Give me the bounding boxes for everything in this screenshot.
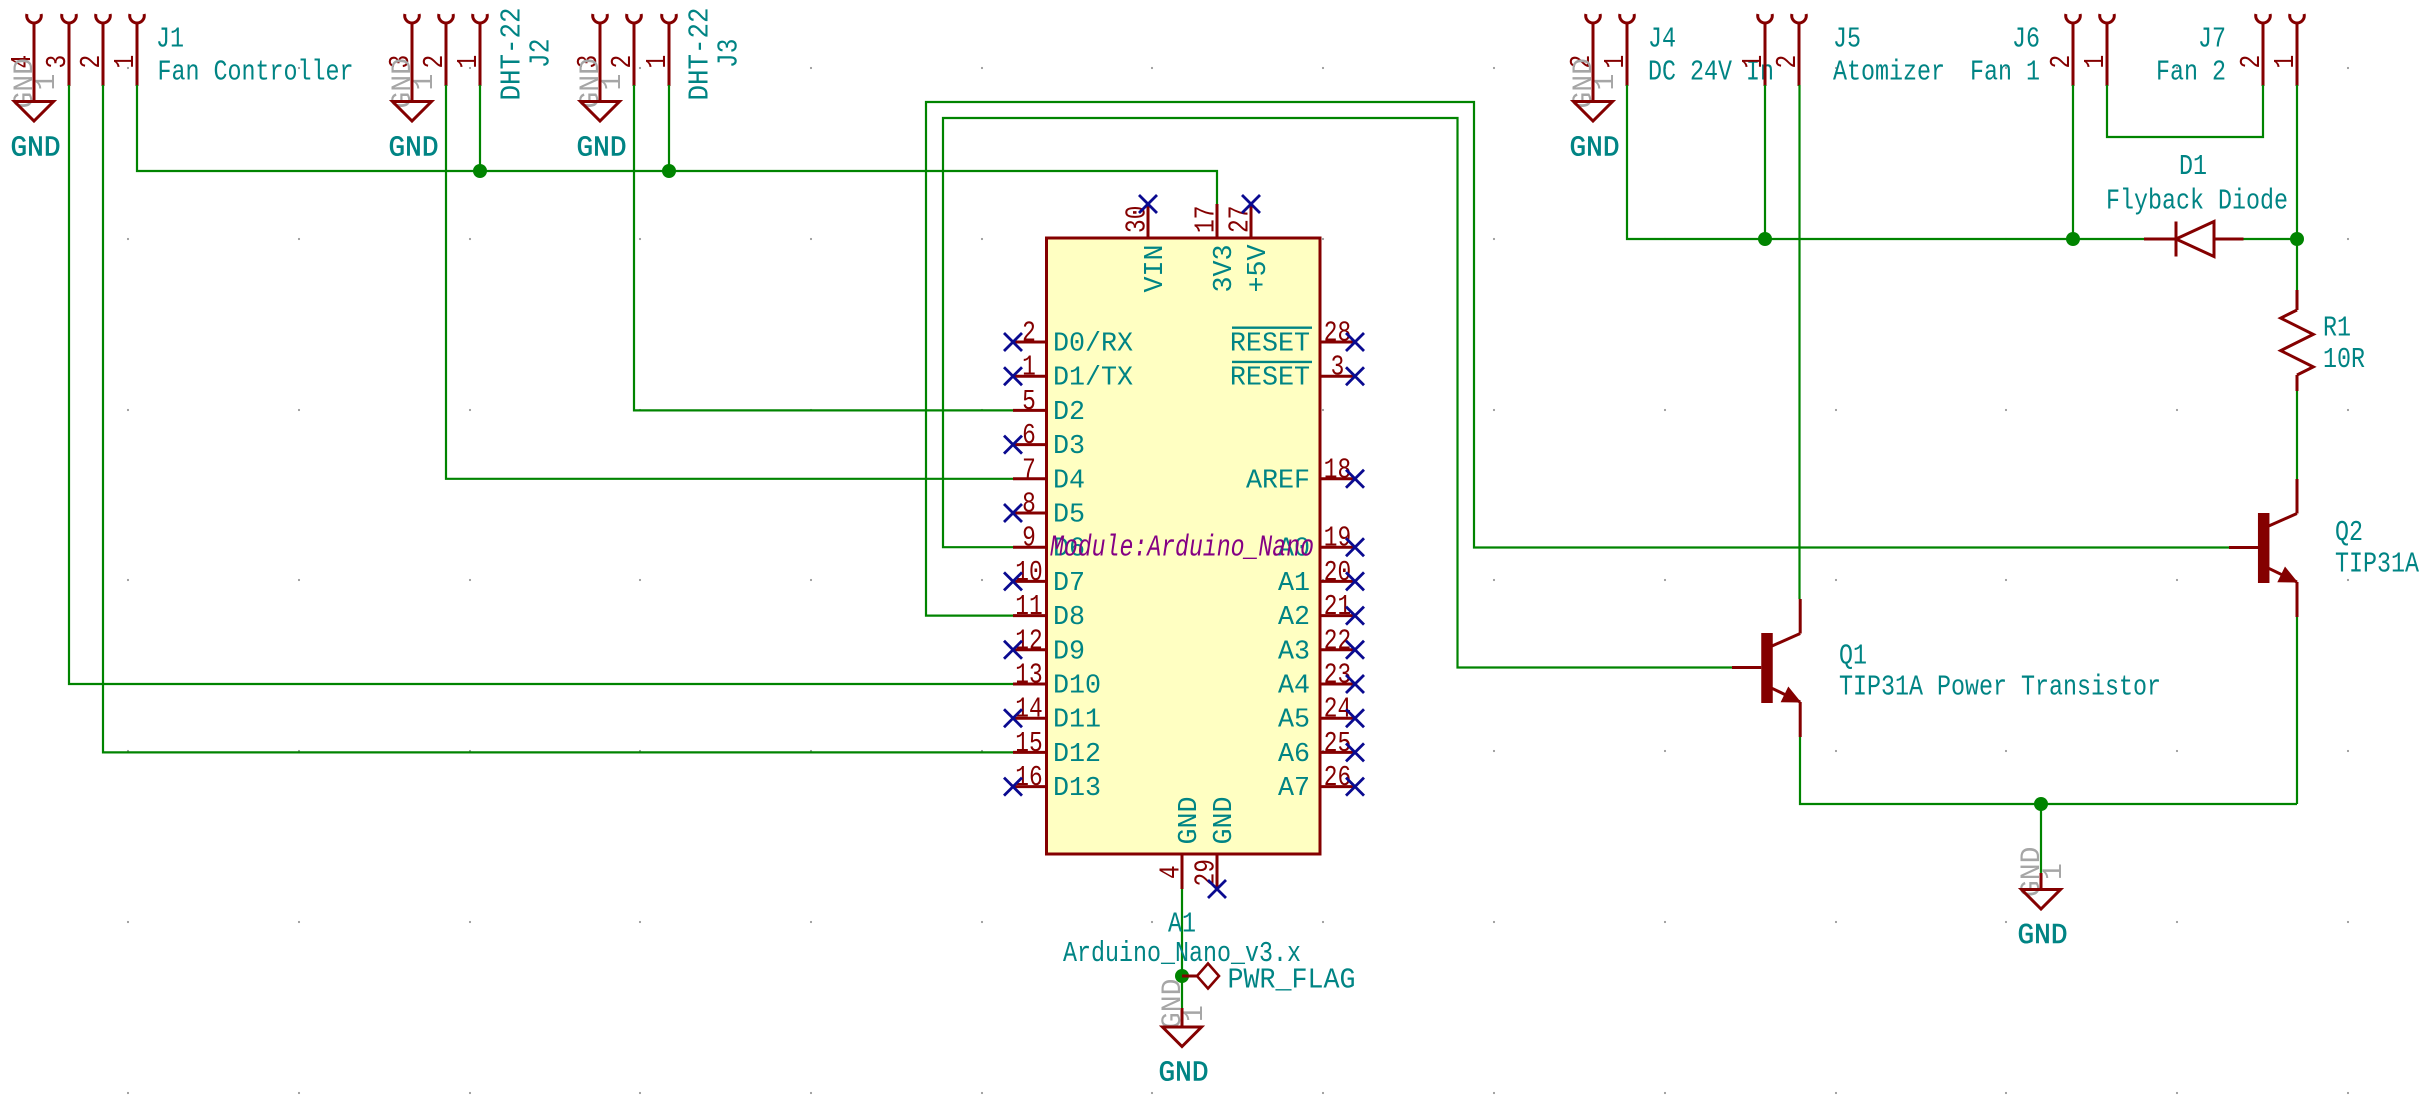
svg-text:17: 17 xyxy=(1190,206,1223,233)
svg-text:5: 5 xyxy=(1022,385,1036,418)
svg-text:9: 9 xyxy=(1022,522,1036,555)
svg-text:D3: D3 xyxy=(1053,432,1085,462)
svg-text:Atomizer: Atomizer xyxy=(1833,56,1945,89)
connector J7 pin 2 xyxy=(2256,14,2271,23)
no-connect X at pin 30 xyxy=(1139,195,1157,213)
svg-text:D5: D5 xyxy=(1053,501,1085,531)
diode D1 xyxy=(2144,238,2176,241)
svg-text:D10: D10 xyxy=(1053,672,1101,702)
svg-text:GND: GND xyxy=(1175,796,1205,844)
svg-text:10R: 10R xyxy=(2323,343,2365,376)
svg-text:A1: A1 xyxy=(1278,569,1310,599)
svg-text:D1/TX: D1/TX xyxy=(1053,364,1133,394)
junction at J2 pin1 on 3V3 net xyxy=(473,164,487,178)
pin 17 3V3 (top) xyxy=(1216,204,1219,238)
pin 26 A7 (right) xyxy=(1320,785,1354,788)
pin 19 A0 (right) xyxy=(1320,546,1354,549)
pin 15 D12 (left) xyxy=(1013,751,1046,754)
svg-text:3: 3 xyxy=(1331,351,1345,384)
junction J5.1 on +24V rail xyxy=(1758,232,1772,246)
pin 6 D3 (left) xyxy=(1013,443,1046,446)
connector J1 pin 1 xyxy=(130,14,145,23)
svg-text:Q1: Q1 xyxy=(1839,640,1867,673)
wire J6.1 to J7.2 xyxy=(2107,85,2263,137)
no-connect X at pin 29 xyxy=(1208,880,1226,898)
ground symbol GND (below Q1/Q2) xyxy=(2040,873,2043,890)
svg-text:Fan 1: Fan 1 xyxy=(1970,56,2040,89)
svg-text:1: 1 xyxy=(1591,74,1622,91)
pin 16 D13 (left) xyxy=(1013,785,1046,788)
svg-text:D0/RX: D0/RX xyxy=(1053,330,1133,360)
svg-text:GND: GND xyxy=(2018,919,2068,952)
svg-text:RESET: RESET xyxy=(1230,364,1310,394)
pin 1 D1/TX (left) xyxy=(1013,375,1046,378)
svg-text:1: 1 xyxy=(1599,55,1632,69)
no-connect X at D9 xyxy=(1004,641,1022,659)
svg-text:J6: J6 xyxy=(2012,23,2040,56)
svg-text:D4: D4 xyxy=(1053,466,1085,496)
svg-text:GND: GND xyxy=(11,131,61,164)
junction J7.1 / diode / R1 node xyxy=(2290,232,2304,246)
no-connect X at pin 26 xyxy=(1346,778,1364,796)
pin 5 D2 (left) xyxy=(1013,409,1046,412)
Q2 collector pin xyxy=(2296,479,2299,514)
wire Q1 emitter to ground rail xyxy=(1800,737,2297,804)
pin 25 A6 (right) xyxy=(1320,751,1354,754)
svg-text:J3: J3 xyxy=(713,39,746,68)
svg-text:J2: J2 xyxy=(525,39,558,68)
svg-text:2: 2 xyxy=(606,55,639,69)
no-connect X at D11 xyxy=(1004,709,1022,727)
no-connect X at pin 25 xyxy=(1346,743,1364,761)
svg-text:3V3: 3V3 xyxy=(1210,244,1240,292)
svg-text:16: 16 xyxy=(1015,761,1042,794)
svg-text:1: 1 xyxy=(410,74,441,91)
resistor R1 xyxy=(2296,290,2299,310)
connector J5 pin 1 xyxy=(1758,14,1773,23)
svg-text:PWR_FLAG: PWR_FLAG xyxy=(1228,964,1356,997)
wire Q2 emitter down xyxy=(2296,617,2298,804)
wire junction to GND symbol xyxy=(2040,804,2042,875)
pin 30 VIN (top) xyxy=(1147,204,1150,238)
junction J6.2 on +24V rail xyxy=(2066,232,2080,246)
svg-text:J4: J4 xyxy=(1648,23,1676,56)
svg-text:2: 2 xyxy=(75,55,108,69)
wire J5.1 stub xyxy=(1764,85,1766,239)
pin 8 D5 (left) xyxy=(1013,512,1046,515)
svg-text:2: 2 xyxy=(2235,55,2268,69)
wire J6.2 stub xyxy=(2072,85,2074,239)
ground symbol GND (below Arduino) xyxy=(1181,1008,1184,1027)
Q2 emitter pin xyxy=(2296,582,2299,617)
wire D6 to Q1 base xyxy=(943,118,1732,668)
svg-text:30: 30 xyxy=(1121,206,1154,233)
no-connect X at pin 3 xyxy=(1346,367,1364,385)
svg-text:A5: A5 xyxy=(1278,706,1310,736)
no-connect X at pin 23 xyxy=(1346,675,1364,693)
connector J7 pin 1 xyxy=(2290,14,2305,23)
svg-text:1: 1 xyxy=(2079,55,2112,69)
svg-text:A7: A7 xyxy=(1278,774,1310,804)
pin 21 A2 (right) xyxy=(1320,614,1354,617)
no-connect X at pin 21 xyxy=(1346,607,1364,625)
pin 28 RESET (right) xyxy=(1320,341,1354,344)
svg-text:D11: D11 xyxy=(1053,706,1101,736)
pin 20 A1 (right) xyxy=(1320,580,1354,583)
junction at PWR_FLAG on GND net xyxy=(1175,969,1189,983)
connector J4 pin 2 xyxy=(1586,14,1601,23)
svg-text:D8: D8 xyxy=(1053,603,1085,633)
wire J3.2 to D2 xyxy=(634,85,1013,410)
svg-text:8: 8 xyxy=(1022,488,1036,521)
svg-text:D9: D9 xyxy=(1053,637,1085,667)
pin 27 +5V (top) xyxy=(1250,204,1253,238)
svg-text:1: 1 xyxy=(598,74,629,91)
wire J1.2 to D12 xyxy=(103,85,1013,752)
pin 2 D0/RX (left) xyxy=(1013,341,1046,344)
svg-text:Fan Controller: Fan Controller xyxy=(158,56,354,89)
junction on emitter ground rail xyxy=(2034,797,2048,811)
wire J3.1 stub xyxy=(668,85,670,171)
svg-text:1: 1 xyxy=(1022,351,1036,384)
svg-text:Module:Arduino_Nano: Module:Arduino_Nano xyxy=(1050,531,1314,566)
svg-text:D7: D7 xyxy=(1053,569,1085,599)
svg-text:15: 15 xyxy=(1015,727,1042,760)
no-connect X at D0/RX xyxy=(1004,333,1022,351)
no-connect X at pin 20 xyxy=(1346,572,1364,590)
connector J1 pin 2 xyxy=(96,14,111,23)
wire Arduino GND pin 4 down xyxy=(1181,888,1183,1011)
connector J6 pin 2 xyxy=(2066,14,2081,23)
svg-text:D12: D12 xyxy=(1053,740,1101,770)
svg-text:TIP31A: TIP31A xyxy=(2335,548,2420,581)
no-connect X at pin 19 xyxy=(1346,538,1364,556)
no-connect X at pin 27 xyxy=(1242,195,1260,213)
svg-text:J5: J5 xyxy=(1833,23,1861,56)
connector J4 pin 1 xyxy=(1620,14,1635,23)
svg-text:2: 2 xyxy=(1022,317,1036,350)
svg-text:J1: J1 xyxy=(156,23,184,56)
no-connect X at D13 xyxy=(1004,778,1022,796)
svg-text:2: 2 xyxy=(418,55,451,69)
svg-text:Flyback Diode: Flyback Diode xyxy=(2106,185,2288,218)
wire J2.1 stub xyxy=(479,85,481,171)
svg-text:VIN: VIN xyxy=(1141,244,1171,292)
svg-text:3: 3 xyxy=(41,55,74,69)
pin 23 A4 (right) xyxy=(1320,683,1354,686)
svg-text:1: 1 xyxy=(1737,55,1770,69)
svg-text:10: 10 xyxy=(1015,556,1042,589)
svg-text:RESET: RESET xyxy=(1230,330,1310,360)
svg-text:A6: A6 xyxy=(1278,740,1310,770)
svg-text:7: 7 xyxy=(1022,453,1036,486)
svg-text:GND: GND xyxy=(1570,131,1620,164)
svg-text:13: 13 xyxy=(1015,659,1042,692)
svg-text:GND: GND xyxy=(577,131,627,164)
svg-text:A4: A4 xyxy=(1278,672,1310,702)
no-connect X at pin 18 xyxy=(1346,470,1364,488)
power flag PWR_FLAG xyxy=(1182,975,1197,978)
svg-text:GND: GND xyxy=(1159,1057,1209,1090)
svg-text:+5V: +5V xyxy=(1244,244,1274,292)
wire D8 to Q2 base xyxy=(926,102,2229,616)
svg-text:GND: GND xyxy=(389,131,439,164)
overline for RESET xyxy=(1232,327,1312,329)
svg-text:1: 1 xyxy=(641,55,674,69)
connector J2 pin 2 xyxy=(439,14,454,23)
connector J3 pin 2 xyxy=(627,14,642,23)
connector J6 pin 1 xyxy=(2100,14,2115,23)
connector J3 pin 3 xyxy=(593,14,608,23)
connector J1 pin 3 xyxy=(62,14,77,23)
no-connect X at pin 28 xyxy=(1346,333,1364,351)
svg-text:2: 2 xyxy=(1771,55,1804,69)
svg-text:A2: A2 xyxy=(1278,603,1310,633)
svg-text:J7: J7 xyxy=(2198,23,2226,56)
connector J2 pin 3 xyxy=(405,14,420,23)
ground symbol GND (J2) xyxy=(393,102,432,122)
connector J5 pin 2 xyxy=(1792,14,1807,23)
ground symbol GND (J1) xyxy=(15,102,54,122)
pin 9 D6 (left) xyxy=(1013,546,1046,549)
svg-text:D2: D2 xyxy=(1053,398,1085,428)
ground symbol GND (J4) xyxy=(1574,102,1613,122)
svg-text:GND: GND xyxy=(1210,796,1240,844)
connector J1 pin 4 xyxy=(27,14,42,23)
wire J5.2 to Q1 collector xyxy=(1798,85,1800,599)
wire diode cathode to R1 top junction xyxy=(2244,238,2298,240)
pin 12 D9 (left) xyxy=(1013,648,1046,651)
ground symbol GND (J3) xyxy=(581,102,620,122)
svg-text:A1: A1 xyxy=(1168,908,1196,941)
connector J3 pin 1 xyxy=(662,14,677,23)
svg-text:14: 14 xyxy=(1015,693,1042,726)
svg-text:6: 6 xyxy=(1022,419,1036,452)
svg-text:D13: D13 xyxy=(1053,774,1101,804)
svg-text:R1: R1 xyxy=(2323,312,2351,345)
svg-text:29: 29 xyxy=(1190,859,1223,886)
svg-text:D1: D1 xyxy=(2179,150,2207,183)
connector J2 pin 1 xyxy=(473,14,488,23)
wire J2.2 to D4 xyxy=(446,85,1013,479)
svg-text:12: 12 xyxy=(1015,624,1042,657)
pin 22 A3 (right) xyxy=(1320,648,1354,651)
svg-text:A3: A3 xyxy=(1278,637,1310,667)
svg-text:1: 1 xyxy=(32,74,63,91)
pin 24 A5 (right) xyxy=(1320,717,1354,720)
pin 7 D4 (left) xyxy=(1013,477,1046,480)
svg-text:27: 27 xyxy=(1224,206,1257,233)
wire +24V rail from J4.1 xyxy=(1627,85,2144,239)
wire R1 bottom to Q2 collector xyxy=(2296,391,2298,479)
wire R1 top lead xyxy=(2296,239,2298,290)
pin 3 RESET (right) xyxy=(1320,375,1354,378)
svg-text:1: 1 xyxy=(2269,55,2302,69)
pin 10 D7 (left) xyxy=(1013,580,1046,583)
module A1 Arduino_Nano_v3.x body xyxy=(1047,238,1321,854)
no-connect X at pin 22 xyxy=(1346,641,1364,659)
svg-text:Fan 2: Fan 2 xyxy=(2156,56,2226,89)
svg-text:AREF: AREF xyxy=(1246,466,1310,496)
pin 4 GND (bottom) xyxy=(1181,854,1184,889)
svg-text:Q2: Q2 xyxy=(2335,516,2363,549)
Q1 collector pin xyxy=(1799,599,1802,634)
no-connect X at D1/TX xyxy=(1004,367,1022,385)
wire J1.3 to D10 xyxy=(69,85,1013,684)
pin 29 GND (bottom) xyxy=(1216,854,1219,889)
svg-text:4: 4 xyxy=(1155,865,1188,879)
wire J1.1 to 3V3 pin xyxy=(137,85,1217,205)
transistor Q2 (TIP31A) xyxy=(2229,546,2258,549)
svg-text:TIP31A Power Transistor: TIP31A Power Transistor xyxy=(1839,671,2161,704)
svg-text:1: 1 xyxy=(452,55,485,69)
pin 14 D11 (left) xyxy=(1013,717,1046,720)
transistor Q1 (TIP31A) xyxy=(1732,666,1761,669)
no-connect X at D7 xyxy=(1004,572,1022,590)
wire J7.1 stub xyxy=(2296,85,2298,239)
junction at J3 pin1 on 3V3 net xyxy=(662,164,676,178)
svg-text:11: 11 xyxy=(1015,590,1042,623)
svg-text:1: 1 xyxy=(2039,863,2070,880)
svg-text:1: 1 xyxy=(1180,1005,1211,1022)
pin 13 D10 (left) xyxy=(1013,683,1046,686)
no-connect X at pin 24 xyxy=(1346,709,1364,727)
svg-text:1: 1 xyxy=(109,55,142,69)
pin 18 AREF (right) xyxy=(1320,477,1354,480)
pin 11 D8 (left) xyxy=(1013,614,1046,617)
Q1 emitter pin xyxy=(1799,702,1802,737)
no-connect X at D5 xyxy=(1004,504,1022,522)
no-connect X at D3 xyxy=(1004,436,1022,454)
svg-text:2: 2 xyxy=(2045,55,2078,69)
overline for RESET xyxy=(1232,361,1312,363)
